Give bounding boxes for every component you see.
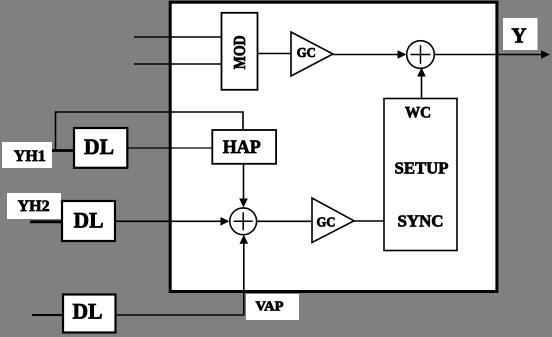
svg-text:YH1: YH1 (14, 148, 46, 165)
block DL (upper delay) (74, 128, 127, 168)
wire summing junction 1 to output Y (434, 54, 542, 56)
svg-text:YH2: YH2 (18, 198, 50, 215)
svg-text:SYNC: SYNC (398, 212, 444, 231)
wire MOD to GC amplifier (258, 53, 292, 55)
wire VAP branch from DL up to summing junction 2 (116, 242, 244, 315)
wire summing junction 2 to GC amplifier (257, 220, 312, 222)
svg-text:SETUP: SETUP (395, 159, 449, 178)
svg-text:WC: WC (405, 104, 431, 121)
wire YH2 to DL (30, 220, 62, 223)
svg-text:GC: GC (317, 214, 336, 229)
svg-text:VAP: VAP (256, 298, 284, 313)
wire input line 2 to MOD (134, 63, 222, 65)
svg-text:DL: DL (73, 298, 103, 323)
op-amp GC (upper amplifier) (291, 32, 333, 76)
system boundary box (170, 2, 497, 291)
svg-text:HAP: HAP (223, 137, 261, 158)
wire DL to summing junction 2 (115, 220, 222, 222)
arrowhead into summing junction 1 from left (398, 50, 407, 59)
wire GC to SYNC input (354, 220, 384, 222)
block HAP (212, 130, 276, 164)
block MOD (222, 13, 258, 90)
svg-text:DL: DL (84, 134, 114, 159)
wire GC to summing junction 1 (333, 54, 399, 56)
summing junction 1 (407, 41, 435, 69)
node YH2 label (7, 193, 61, 219)
wire YH1 to DL (50, 149, 74, 152)
arrowhead into summing junction 2 from left (221, 217, 230, 226)
arrowhead output Y (541, 50, 550, 59)
arrowhead into summing junction 1 from below (417, 68, 426, 77)
block DL (middle delay) (62, 201, 115, 241)
node Y label (503, 18, 538, 50)
svg-text:DL: DL (74, 207, 104, 232)
wire input line 1 to MOD (134, 36, 222, 38)
wire DL to HAP (127, 147, 212, 149)
arrowhead into summing junction 2 from above (239, 199, 248, 208)
node VAP label (246, 294, 299, 320)
block DL (bottom delay) (63, 295, 116, 333)
op-amp GC (lower amplifier) (312, 198, 354, 242)
wire WC block to summing junction 1 (421, 75, 423, 100)
node YH1 label (2, 142, 52, 168)
wire HAP to summing junction 2 (243, 164, 245, 200)
svg-text:Y: Y (511, 23, 526, 47)
wire feedback loop from YH1 node over to HAP top (56, 112, 244, 150)
svg-text:GC: GC (297, 45, 316, 60)
svg-text:MOD: MOD (230, 35, 249, 69)
block WC SETUP SYNC (384, 99, 457, 251)
summing junction 2 (230, 208, 257, 235)
arrowhead into summing junction 2 from below (240, 235, 249, 244)
wire input stub to bottom DL (32, 314, 63, 316)
